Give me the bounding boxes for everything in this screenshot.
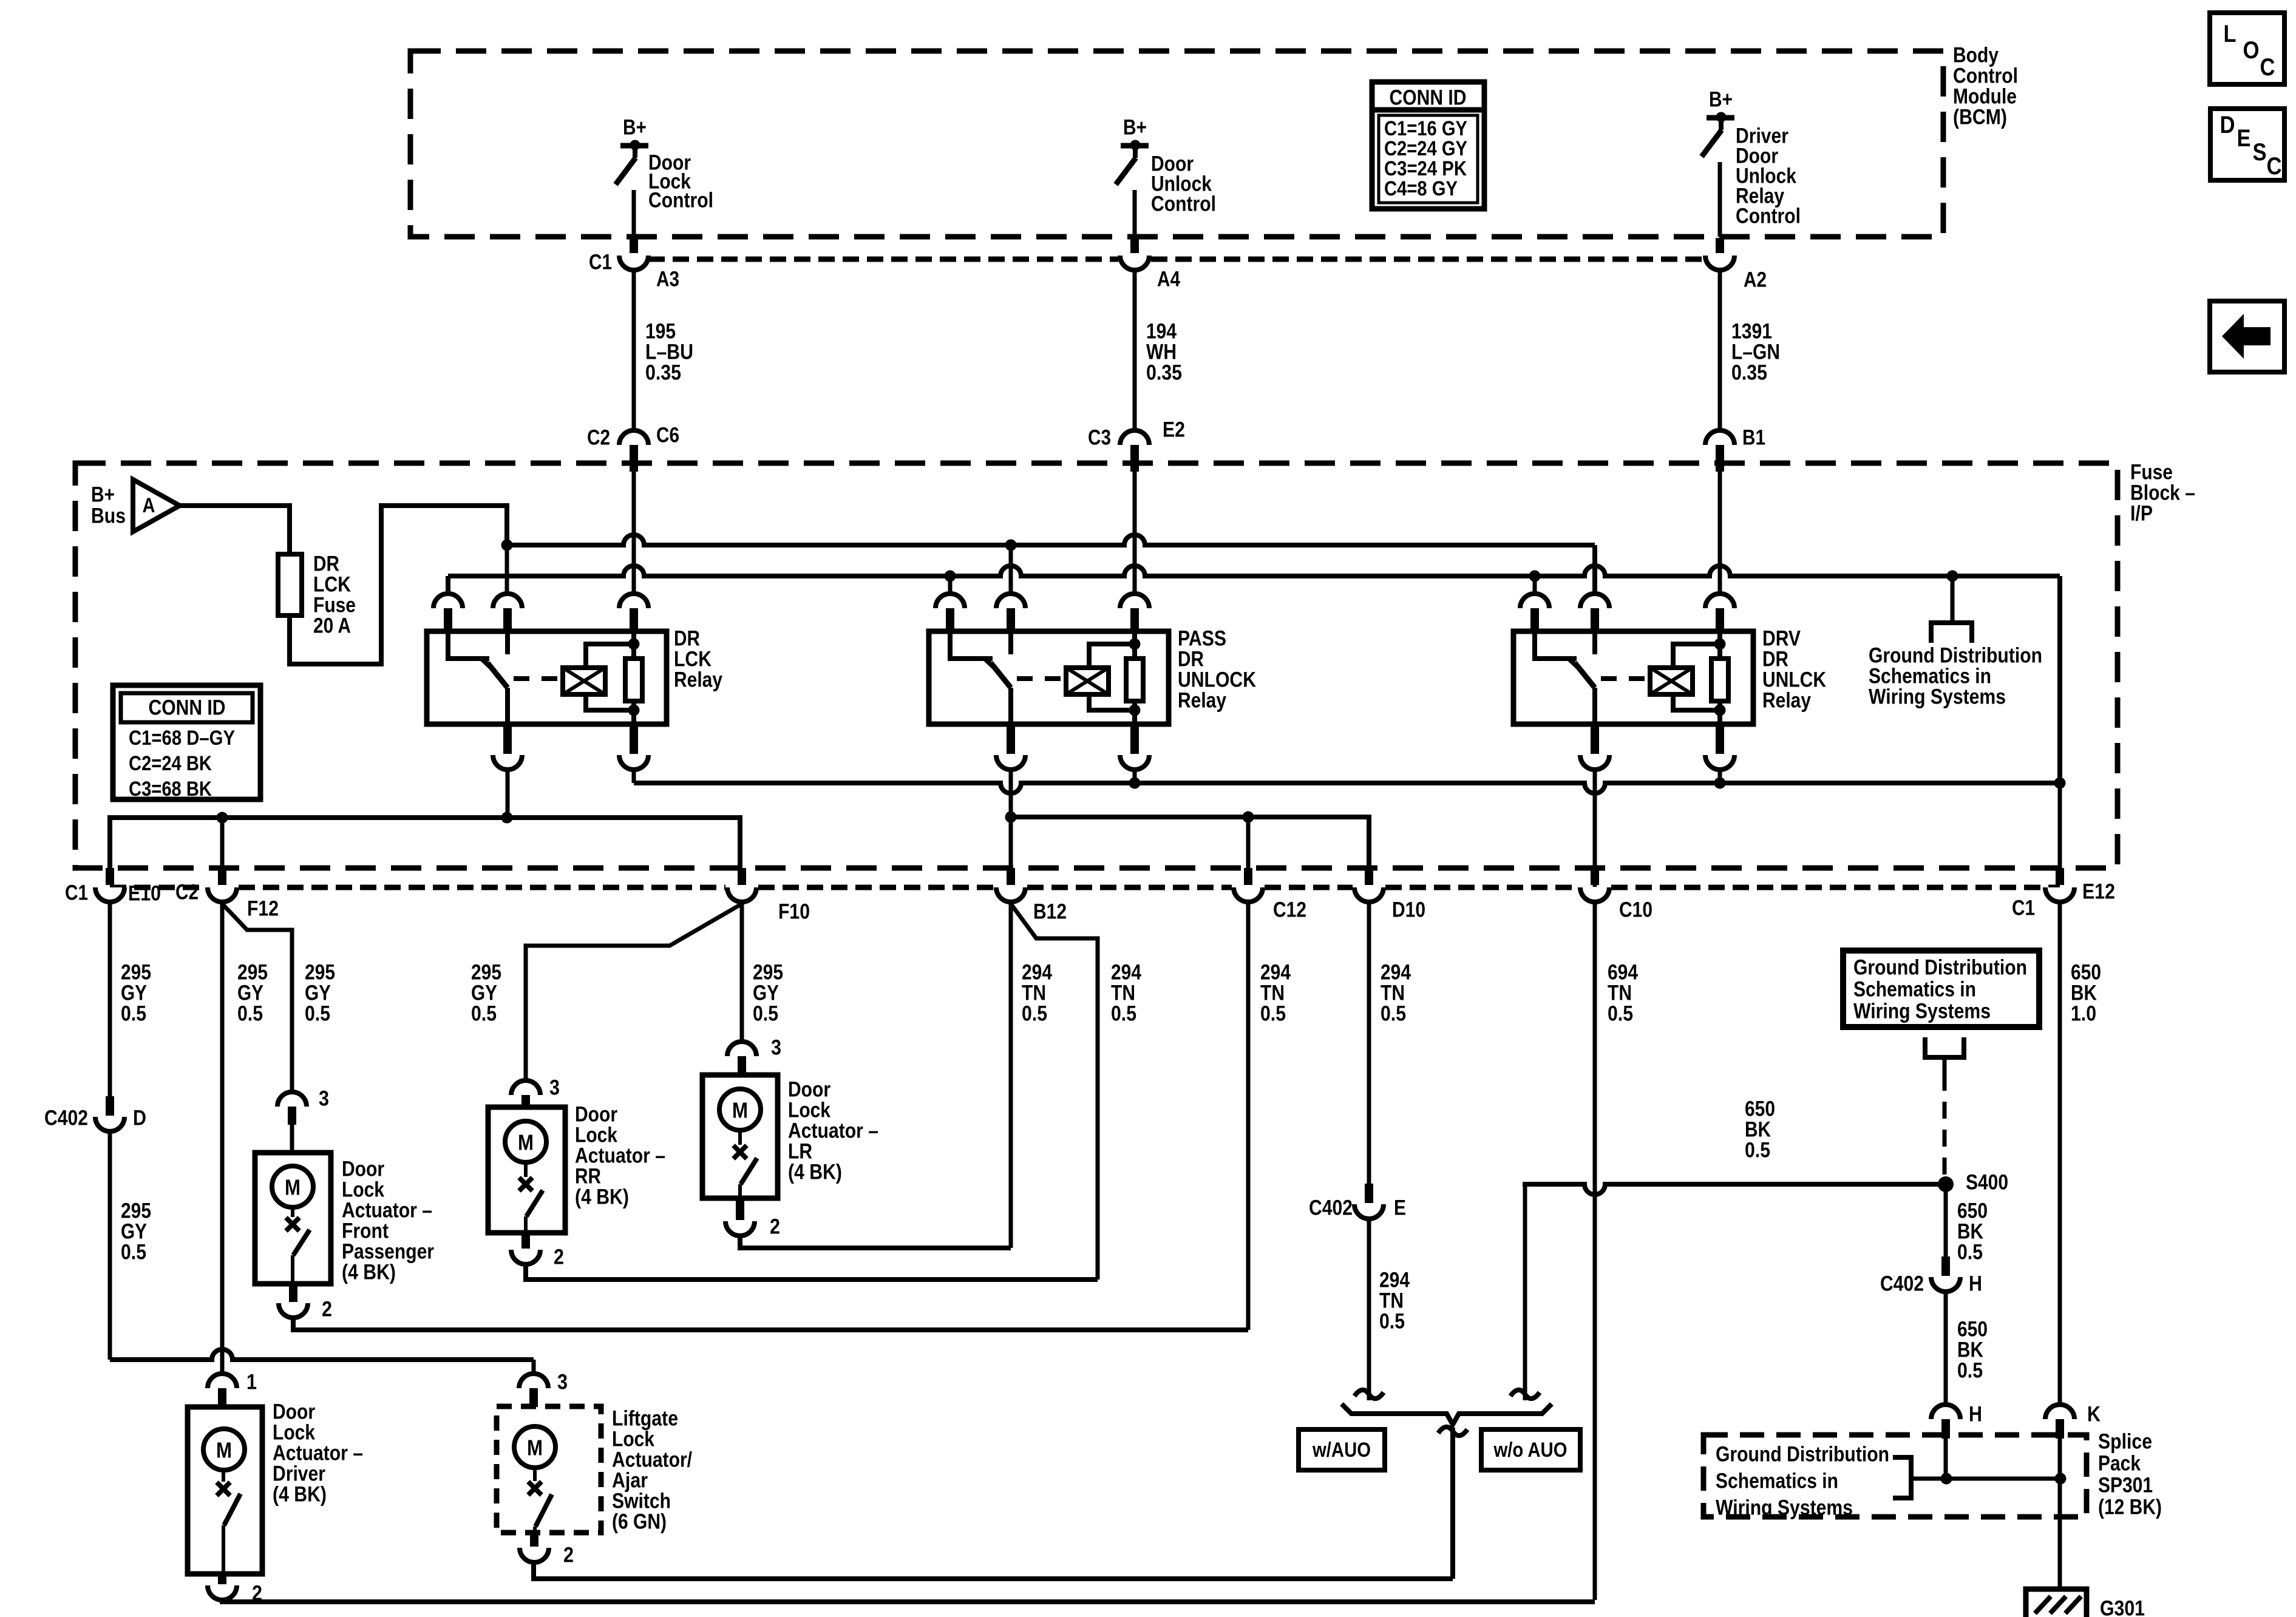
svg-text:3: 3 [319,1087,329,1111]
svg-text:w/AUO: w/AUO [1312,1439,1371,1462]
svg-text:I/P: I/P [2130,502,2153,526]
svg-text:O: O [2243,37,2260,64]
svg-text:C402: C402 [1309,1196,1353,1220]
svg-text:Ground Distribution: Ground Distribution [1853,956,2027,980]
svg-text:2: 2 [554,1246,564,1269]
svg-text:M: M [732,1098,748,1123]
svg-text:Bus: Bus [91,504,126,528]
svg-text:CONN ID: CONN ID [149,696,226,720]
svg-text:2: 2 [563,1544,574,1567]
svg-text:0.5: 0.5 [121,1241,146,1264]
svg-text:F12: F12 [247,897,279,921]
svg-text:D: D [2220,112,2235,138]
svg-text:H: H [1969,1272,1982,1296]
svg-text:CONN ID: CONN ID [1390,86,1467,110]
svg-text:0.5: 0.5 [1745,1139,1770,1162]
svg-text:0.5: 0.5 [1957,1241,1983,1264]
svg-text:A4: A4 [1157,268,1180,291]
svg-text:C4=8 GY: C4=8 GY [1384,177,1458,200]
svg-text:1: 1 [246,1371,257,1394]
svg-text:E: E [2237,125,2251,152]
svg-text:(6 GN): (6 GN) [612,1510,667,1534]
svg-text:2: 2 [252,1582,262,1605]
svg-text:0.5: 0.5 [237,1002,263,1026]
svg-text:Pack: Pack [2098,1452,2141,1476]
svg-text:D10: D10 [1392,898,1425,922]
svg-text:2: 2 [770,1215,780,1239]
svg-text:F10: F10 [778,900,810,924]
svg-text:1.0: 1.0 [2071,1002,2096,1026]
svg-text:B+: B+ [1709,88,1733,112]
svg-text:0.5: 0.5 [753,1002,778,1026]
svg-text:3: 3 [549,1076,560,1100]
svg-text:Control: Control [1736,205,1801,228]
svg-text:E2: E2 [1163,418,1185,442]
svg-text:Control: Control [1151,192,1216,216]
svg-text:Schematics in: Schematics in [1853,978,1976,1002]
svg-text:C1=68 D–GY: C1=68 D–GY [129,727,235,750]
svg-text:20 A: 20 A [313,614,351,638]
svg-text:C12: C12 [1273,898,1306,922]
svg-text:C1: C1 [589,251,612,274]
svg-text:(BCM): (BCM) [1953,106,2007,129]
svg-text:3: 3 [771,1036,781,1060]
svg-text:0.5: 0.5 [1379,1310,1405,1334]
svg-text:0.5: 0.5 [471,1002,497,1026]
svg-text:(4 BK): (4 BK) [575,1185,629,1209]
svg-text:S400: S400 [1966,1171,2008,1195]
svg-text:C: C [2267,153,2282,180]
svg-text:0.5: 0.5 [1608,1002,1633,1026]
svg-text:C2: C2 [587,426,610,450]
svg-text:0.5: 0.5 [305,1002,330,1026]
svg-text:M: M [216,1438,232,1463]
svg-text:Relay: Relay [674,668,722,692]
svg-text:E: E [1394,1196,1406,1220]
svg-text:C1: C1 [2012,897,2035,920]
svg-text:0.5: 0.5 [1111,1002,1136,1026]
svg-text:M: M [527,1436,543,1460]
svg-text:A2: A2 [1744,268,1767,292]
svg-text:2: 2 [322,1298,332,1321]
svg-text:M: M [518,1130,534,1155]
svg-text:0.35: 0.35 [645,361,681,385]
svg-text:B+: B+ [1123,116,1147,140]
svg-text:C: C [2260,54,2275,81]
svg-text:0.5: 0.5 [1957,1359,1983,1383]
svg-text:Relay: Relay [1762,689,1811,713]
svg-text:Splice: Splice [2098,1430,2152,1454]
svg-text:3: 3 [557,1371,568,1394]
svg-text:C2: C2 [175,881,199,904]
svg-text:E12: E12 [2082,880,2115,904]
svg-text:(12 BK): (12 BK) [2098,1496,2162,1519]
svg-text:B12: B12 [1033,900,1067,924]
svg-text:A: A [143,494,155,517]
svg-text:D: D [133,1107,146,1130]
svg-text:S: S [2253,139,2267,166]
svg-text:E10: E10 [128,882,161,906]
svg-text:0.35: 0.35 [1731,361,1767,385]
svg-text:A3: A3 [656,268,679,291]
svg-text:Relay: Relay [1178,689,1226,713]
svg-text:0.5: 0.5 [1381,1002,1406,1026]
svg-text:C3: C3 [1088,426,1111,450]
svg-text:B+: B+ [623,116,647,140]
svg-text:B+: B+ [91,483,115,507]
svg-text:C10: C10 [1619,898,1652,922]
svg-text:C402: C402 [1880,1272,1924,1296]
svg-text:C402: C402 [44,1107,88,1130]
svg-text:0.5: 0.5 [121,1002,146,1026]
svg-text:Ground Distribution: Ground Distribution [1716,1443,1889,1466]
svg-text:Schematics in: Schematics in [1716,1470,1838,1493]
svg-text:M: M [285,1175,301,1200]
svg-text:0.5: 0.5 [1022,1002,1047,1026]
svg-text:G301: G301 [2100,1597,2145,1617]
svg-text:Wiring Systems: Wiring Systems [1853,1000,1991,1023]
svg-text:L: L [2224,21,2237,47]
svg-text:0.35: 0.35 [1146,361,1182,385]
svg-text:(4 BK): (4 BK) [342,1261,396,1284]
svg-text:C6: C6 [656,424,679,447]
svg-text:Wiring Systems: Wiring Systems [1869,685,2006,709]
svg-text:C3=68 BK: C3=68 BK [129,778,212,801]
svg-text:SP301: SP301 [2098,1474,2153,1497]
svg-text:H: H [1969,1403,1982,1426]
svg-text:B1: B1 [1742,426,1765,450]
svg-text:Wiring Systems: Wiring Systems [1716,1496,1853,1520]
svg-text:K: K [2087,1403,2101,1426]
svg-text:C2=24 BK: C2=24 BK [129,752,212,775]
svg-text:w/o AUO: w/o AUO [1493,1439,1567,1462]
svg-text:C1: C1 [65,881,88,905]
svg-text:Control: Control [648,189,713,212]
svg-text:(4 BK): (4 BK) [788,1161,842,1184]
svg-text:0.5: 0.5 [1260,1002,1286,1026]
svg-text:(4 BK): (4 BK) [273,1483,327,1507]
